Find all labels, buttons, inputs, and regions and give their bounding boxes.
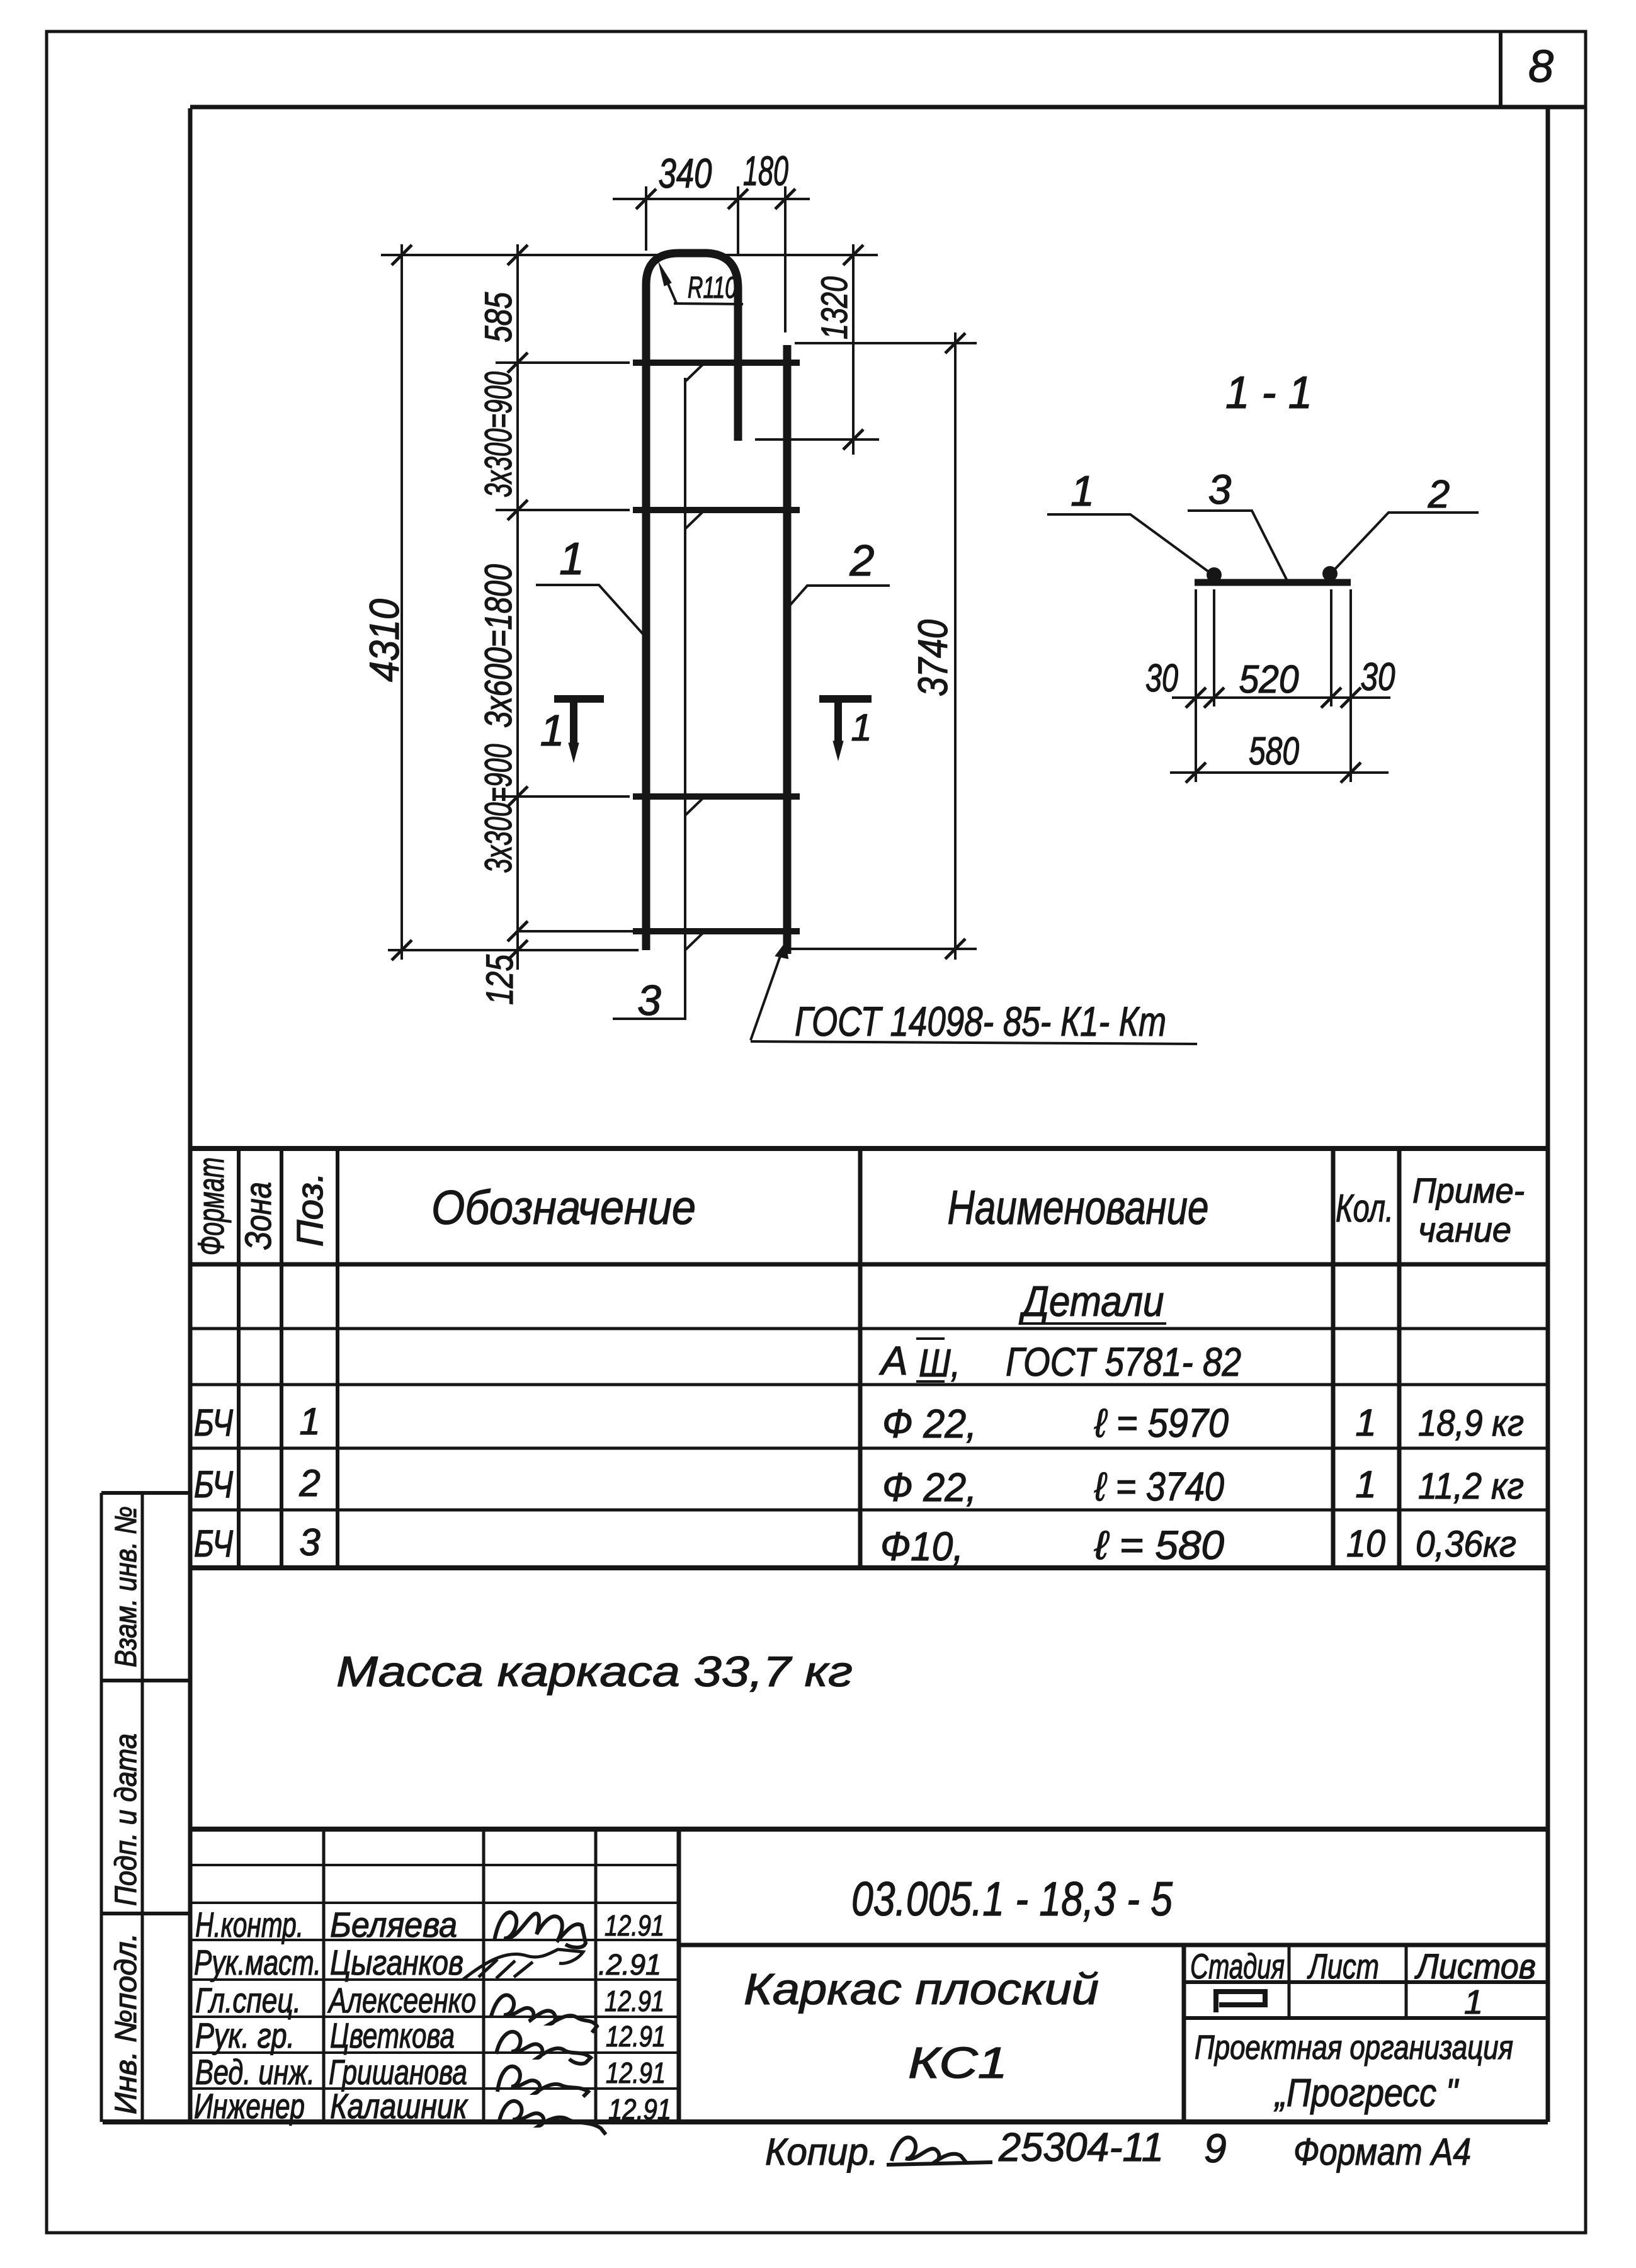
svg-text:Каркас плоский: Каркас плоский bbox=[744, 1965, 1099, 2014]
svg-text:Ф10,: Ф10, bbox=[880, 1524, 963, 1569]
3740 ticks bbox=[945, 333, 965, 959]
svg-text:3х300=900: 3х300=900 bbox=[477, 371, 520, 497]
svg-text:2: 2 bbox=[1428, 473, 1450, 516]
svg-text:.2.91: .2.91 bbox=[598, 1948, 661, 1981]
svg-text:ГОСТ 5781- 82: ГОСТ 5781- 82 bbox=[1006, 1339, 1241, 1385]
bar 1 section dot bbox=[1207, 567, 1222, 582]
crossbar 3 in section bbox=[1195, 579, 1351, 586]
top dimension line 340/180 bbox=[613, 198, 810, 200]
left attestation strip bbox=[101, 1493, 142, 2122]
signature table column lines bbox=[324, 1829, 596, 2121]
crossbar 3 (second) bbox=[633, 507, 800, 513]
bottom extension line of cage (right part) bbox=[791, 948, 977, 950]
svg-text:БЧ: БЧ bbox=[194, 1463, 233, 1505]
svg-text:1: 1 bbox=[559, 534, 584, 584]
svg-text:12.91: 12.91 bbox=[606, 2020, 666, 2053]
svg-text:3: 3 bbox=[1208, 466, 1232, 513]
section mark right bbox=[819, 695, 872, 703]
label 2 leader bbox=[788, 586, 890, 607]
svg-text:2: 2 bbox=[298, 1462, 320, 1504]
1320 extension bottom bbox=[755, 438, 879, 441]
4310 ticks bbox=[392, 245, 412, 960]
svg-text:0,36кг: 0,36кг bbox=[1416, 1524, 1516, 1565]
section label 2 bbox=[1332, 513, 1479, 572]
svg-text:585: 585 bbox=[477, 292, 520, 343]
svg-text:2: 2 bbox=[849, 536, 875, 585]
svg-text:10: 10 bbox=[1346, 1522, 1385, 1565]
svg-text:чание: чание bbox=[1418, 1210, 1511, 1249]
svg-text:1: 1 bbox=[851, 706, 872, 749]
sheet number box divider bbox=[1499, 31, 1503, 107]
table header bottom line bbox=[190, 1262, 1548, 1267]
svg-text:Н.контр.: Н.контр. bbox=[195, 1905, 304, 1944]
svg-text:Проектная организация: Проектная организация bbox=[1195, 2029, 1513, 2067]
svg-text:Зона: Зона bbox=[238, 1182, 279, 1250]
svg-text:Ш,: Ш, bbox=[919, 1342, 960, 1385]
svg-text:БЧ: БЧ bbox=[194, 1402, 233, 1444]
svg-text:ГОСТ 14098- 85- К1- Кт: ГОСТ 14098- 85- К1- Кт bbox=[795, 998, 1166, 1045]
svg-text:30: 30 bbox=[1361, 655, 1395, 699]
overall dimension 4310 line bbox=[400, 244, 403, 960]
svg-text:Формат: Формат bbox=[191, 1157, 232, 1256]
svg-text:Кол.: Кол. bbox=[1336, 1187, 1394, 1230]
inner frame top line bbox=[190, 105, 1586, 110]
svg-text:ℓ = 3740: ℓ = 3740 bbox=[1094, 1464, 1224, 1509]
svg-text:Формат А4: Формат А4 bbox=[1293, 2131, 1471, 2173]
svg-text:30: 30 bbox=[1145, 657, 1178, 700]
3740 extension top bbox=[795, 342, 977, 344]
svg-text:25304-11: 25304-11 bbox=[998, 2124, 1164, 2170]
bottom extension line of cage (left part) bbox=[388, 949, 639, 951]
section mark left bbox=[554, 695, 604, 703]
svg-text:Поз.: Поз. bbox=[290, 1172, 331, 1247]
svg-text:КС1: КС1 bbox=[908, 2038, 1008, 2087]
dimension 3740 line bbox=[954, 332, 957, 960]
label 3 leader bbox=[613, 378, 685, 1019]
signature squiggles bbox=[494, 1912, 586, 1948]
svg-text:Стадия: Стадия bbox=[1190, 1946, 1285, 1986]
svg-text:1320: 1320 bbox=[814, 276, 855, 339]
svg-text:Масса каркаса 33,7 кг: Масса каркаса 33,7 кг bbox=[336, 1648, 853, 1696]
svg-text:12,91: 12,91 bbox=[608, 2093, 671, 2126]
crossbar 3 (top) bbox=[633, 360, 800, 366]
svg-text:1: 1 bbox=[1355, 1402, 1376, 1444]
svg-text:Цветкова: Цветкова bbox=[330, 2016, 455, 2055]
dimension 1320 line bbox=[852, 244, 855, 455]
section label 1 bbox=[1047, 514, 1210, 573]
section dim line 30/520/30 bbox=[1172, 696, 1390, 699]
crossbar 3 (bottom) bbox=[633, 928, 800, 934]
title block top border bbox=[190, 1827, 1548, 1832]
svg-text:Цыганков: Цыганков bbox=[330, 1942, 463, 1982]
top extension line of cage bbox=[381, 254, 878, 256]
extension line at first crossbar bbox=[496, 361, 630, 364]
svg-text:12.91: 12.91 bbox=[605, 1985, 664, 2017]
bar 2 (second longitudinal bar) bbox=[783, 345, 792, 954]
svg-text:Наименование: Наименование bbox=[948, 1181, 1209, 1235]
svg-text:Рук. гр.: Рук. гр. bbox=[195, 2016, 295, 2055]
R110 label bbox=[674, 303, 743, 304]
svg-text:Лист: Лист bbox=[1307, 1946, 1379, 1986]
svg-text:18,9 кг: 18,9 кг bbox=[1418, 1403, 1524, 1444]
svg-text:ℓ = 5970: ℓ = 5970 bbox=[1094, 1400, 1229, 1446]
svg-text:Беляева: Беляева bbox=[330, 1905, 457, 1944]
bar 1 with hook (main longitudinal bar) bbox=[646, 253, 738, 950]
svg-text:Ф 22,: Ф 22, bbox=[882, 1401, 977, 1446]
svg-text:БЧ: БЧ bbox=[194, 1522, 233, 1565]
stage table bbox=[1182, 1945, 1186, 2121]
svg-text:125: 125 bbox=[479, 954, 521, 1005]
svg-text:Взам. инв. №: Взам. инв. № bbox=[110, 1506, 143, 1667]
svg-text:Детали: Детали bbox=[1018, 1278, 1164, 1325]
extension line at second crossbar bbox=[496, 509, 630, 511]
stage mark P bbox=[1216, 1992, 1265, 2012]
GOST weld callout underline bbox=[751, 1041, 1197, 1044]
svg-text:3740: 3740 bbox=[909, 620, 956, 696]
svg-text:„Прогресс ": „Прогресс " bbox=[1273, 2072, 1459, 2115]
svg-text:03.005.1 - 18,3 - 5: 03.005.1 - 18,3 - 5 bbox=[851, 1873, 1173, 1926]
table column lines bbox=[239, 1148, 338, 1568]
svg-text:Калашник: Калашник bbox=[330, 2086, 469, 2126]
crossbar 3 (third) bbox=[633, 793, 800, 800]
svg-text:340: 340 bbox=[659, 150, 712, 196]
inner frame bottom line bbox=[103, 2119, 1548, 2124]
table row lines bbox=[190, 1329, 1548, 1510]
svg-text:11,2 кг: 11,2 кг bbox=[1418, 1466, 1524, 1507]
bar 2 section dot bbox=[1322, 566, 1338, 581]
svg-text:580: 580 bbox=[1249, 730, 1299, 773]
svg-text:520: 520 bbox=[1239, 658, 1299, 701]
document number cell divider bbox=[679, 1943, 1548, 1948]
chain ticks bbox=[508, 245, 528, 960]
svg-text:1: 1 bbox=[1071, 467, 1094, 515]
svg-text:Подп. и дата: Подп. и дата bbox=[110, 1733, 143, 1906]
extension line at third crossbar bbox=[496, 795, 630, 798]
svg-text:3х300=900: 3х300=900 bbox=[477, 744, 520, 873]
section label 3 bbox=[1188, 511, 1289, 584]
svg-text:Рук.маст.: Рук.маст. bbox=[194, 1942, 321, 1982]
svg-text:1: 1 bbox=[1355, 1463, 1376, 1505]
svg-text:Листов: Листов bbox=[1414, 1946, 1536, 1986]
svg-text:1: 1 bbox=[540, 706, 565, 755]
extension lines for top dimension bbox=[646, 186, 785, 332]
svg-text:Гл.спец.: Гл.спец. bbox=[195, 1980, 301, 2020]
1320 ticks bbox=[843, 245, 863, 450]
svg-text:8: 8 bbox=[1528, 42, 1554, 92]
extension line at bottom crossbar bbox=[519, 930, 633, 933]
section extension lines bbox=[1196, 589, 1351, 782]
svg-text:Алексеенко: Алексеенко bbox=[327, 1980, 476, 2020]
svg-text:Инженер: Инженер bbox=[194, 2086, 305, 2126]
svg-text:1 - 1: 1 - 1 bbox=[1225, 368, 1312, 418]
label 1 leader bbox=[536, 585, 644, 635]
svg-text:12.91: 12.91 bbox=[605, 1909, 664, 1942]
svg-text:Ф 22,: Ф 22, bbox=[882, 1465, 977, 1510]
svg-text:1: 1 bbox=[1464, 1983, 1483, 2021]
svg-text:12.91: 12.91 bbox=[606, 2056, 666, 2089]
svg-text:9: 9 bbox=[1204, 2126, 1227, 2171]
svg-text:Обозначение: Обозначение bbox=[431, 1181, 696, 1235]
svg-text:180: 180 bbox=[743, 147, 788, 194]
svg-text:3: 3 bbox=[299, 1521, 320, 1563]
svg-text:Инв. №подл.: Инв. №подл. bbox=[110, 1933, 143, 2114]
svg-text:Копир.: Копир. bbox=[765, 2131, 878, 2173]
svg-text:Приме-: Приме- bbox=[1412, 1171, 1525, 1210]
svg-text:4310: 4310 bbox=[361, 599, 407, 682]
signature table row lines bbox=[190, 1865, 679, 2089]
svg-text:3х600=1800: 3х600=1800 bbox=[477, 564, 520, 728]
svg-text:1: 1 bbox=[299, 1400, 320, 1443]
left dimension chain line bbox=[516, 244, 519, 970]
svg-text:А: А bbox=[878, 1338, 908, 1383]
svg-text:3: 3 bbox=[637, 977, 661, 1024]
svg-text:R110: R110 bbox=[688, 271, 737, 305]
label 3 ticks to crossbars bbox=[685, 365, 703, 950]
title block main divider bbox=[677, 1829, 681, 2121]
specification table outer border bbox=[190, 1146, 1548, 1151]
section dim line 580 bbox=[1170, 771, 1389, 774]
GOST weld callout leader bbox=[751, 951, 782, 1040]
dim ticks top bbox=[636, 189, 795, 209]
svg-text:ℓ = 580: ℓ = 580 bbox=[1094, 1522, 1224, 1568]
inner drawing frame bbox=[190, 108, 1548, 2122]
